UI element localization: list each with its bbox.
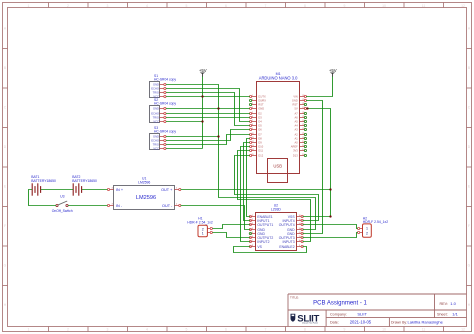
svg-text:7: 7 [265,328,267,332]
ultrasonic sensor S3 HC-SR04 copy [150,126,177,150]
svg-text:SLIIT: SLIIT [357,311,367,316]
svg-text:A6: A6 [295,116,299,120]
wire net ECHO2: S2 ECHO to M1 D2 [166,113,250,115]
svg-text:3: 3 [107,4,109,8]
svg-text:9: 9 [344,4,346,8]
wire net +5V: S2 VCC to 5V bus [166,121,203,123]
svg-text:INPUT2: INPUT2 [257,240,269,244]
wire switch to U1 IN- [68,205,107,207]
svg-text:D1/TX: D1/TX [258,95,266,99]
svg-text:8: 8 [304,4,306,8]
svg-text:A1: A1 [295,137,299,141]
svg-text:5: 5 [186,328,188,332]
svg-text:TRIG: TRIG [153,116,159,120]
svg-text:PCB Assignment - 1: PCB Assignment - 1 [313,300,367,306]
svg-text:BATTERY18650: BATTERY18650 [72,179,97,183]
svg-text:F: F [468,224,470,228]
wire net GND: U1 OUT- to L293D GND (left) [181,206,251,230]
svg-text:D11: D11 [258,149,263,153]
svg-text:HDR-F 2.54_1x2: HDR-F 2.54_1x2 [187,221,213,225]
wire battery BAT2 to U1 IN+ [82,189,108,191]
wire net GND: S1 GND to ground bus down to L293D GND (right) [166,85,316,230]
svg-text:REV:: REV: [440,302,448,306]
wire net +5V: M1 VIN to +5V flag [306,77,333,97]
svg-text:5: 5 [186,4,188,8]
switch U3 OnOff_Switch [52,195,73,213]
wire net TRIG1: S1 TRIG to M1 D5 [166,93,250,126]
svg-text:+5V: +5V [329,68,337,73]
wire net +5V: S3 VCC to 5V bus [166,148,203,150]
svg-text:2: 2 [366,231,368,235]
svg-text:1: 1 [28,328,30,332]
svg-text:D9: D9 [258,141,262,145]
battery BAT1 BATTERY18650 [31,175,56,196]
wire net EN1: M1 D8 to L293D ENABLE1 [247,139,251,217]
junction +5V bus at S1 VCC [201,95,203,97]
svg-text:F: F [4,224,6,228]
svg-text:D2: D2 [258,112,262,116]
svg-text:HC-SR04 copy: HC-SR04 copy [154,102,176,106]
svg-text:6: 6 [225,4,227,8]
svg-text:TITLE:: TITLE: [290,296,299,300]
wire net VS-EN2: L293D VS to ENABLE2 [234,247,307,253]
svg-text:RST: RST [258,103,264,107]
svg-text:ECHO: ECHO [151,139,159,143]
svg-text:D6: D6 [258,128,262,132]
svg-text:Discover Your Future: Discover Your Future [302,322,318,325]
svg-text:OUT +: OUT + [161,188,173,192]
svg-text:D7: D7 [258,133,262,137]
battery BAT2 BATTERY18650 [72,175,97,196]
wire net IN2: M1 D10 to L293D INPUT2 [241,147,251,242]
svg-text:D12: D12 [258,154,263,158]
svg-text:4: 4 [146,4,148,8]
wire net MOTA2: H1 pin1 to OUTPUT2 [213,233,251,238]
svg-text:D10: D10 [258,145,263,149]
ultrasonic sensor S1 HC-SR04 copy [150,74,177,98]
wire net GND: S3 GND to ground bus [166,136,219,138]
junction M1 5V pin [306,107,308,109]
wire net GND: S2 GND to M1 GND [166,108,250,110]
wire net MOTB1: L293D OUTPUT4 to H2 pin1 [303,225,358,229]
svg-text:5V: 5V [295,107,298,111]
svg-text:1: 1 [366,227,368,231]
junction +5V rail at VSS row [329,215,331,217]
svg-text:1.0: 1.0 [450,301,456,306]
svg-text:G: G [4,264,7,268]
wire battery negative rail [29,190,56,206]
svg-text:ECHO: ECHO [151,112,159,116]
svg-text:2021-10-05: 2021-10-05 [350,320,372,325]
usb connector on M1 [268,159,288,183]
svg-text:12: 12 [461,4,465,8]
svg-text:LM2596: LM2596 [136,195,156,201]
svg-text:HC-SR04 copy: HC-SR04 copy [154,78,176,82]
svg-text:D3: D3 [258,116,262,120]
svg-text:ARDUINO NANO 3.0: ARDUINO NANO 3.0 [259,76,298,81]
svg-text:VCC: VCC [153,147,159,151]
svg-text:11: 11 [422,328,426,332]
svg-text:10: 10 [382,328,386,332]
svg-text:BATTERY18650: BATTERY18650 [31,179,56,183]
wire net +5V: S1 VCC to M1 row1 [166,96,250,98]
wire net TRIG3: S3 TRIG to M1 D7 [166,135,250,145]
svg-text:10: 10 [382,4,386,8]
svg-text:GND: GND [292,99,298,103]
wire net MOTA1: H1 pin2 to OUTPUT1 [213,225,251,229]
svg-text:2: 2 [67,328,69,332]
wire net GND: M1 GND to L293D GND (right2) [303,101,323,234]
svg-text:1: 1 [28,4,30,8]
svg-text:D8: D8 [258,137,262,141]
svg-text:1/1: 1/1 [452,311,458,316]
svg-text:AREF: AREF [291,145,298,149]
wire net +5V: sensor 5V bus vertical [202,77,204,149]
svg-text:GND: GND [153,135,159,139]
svg-text:12: 12 [461,328,465,332]
svg-text:7: 7 [265,4,267,8]
svg-text:A3: A3 [295,128,299,132]
svg-text:OnOff_Switch: OnOff_Switch [52,209,73,213]
svg-text:9: 9 [344,328,346,332]
wire net IN4: M1 D12 to L293D INPUT4 [235,156,319,221]
svg-text:2: 2 [67,4,69,8]
mcu module M1 ARDUINO NANO 3.0 [250,72,307,174]
wire net TRIG2: S2 TRIG to M1 D3 [166,117,250,119]
svg-text:D13: D13 [293,154,298,158]
svg-text:4: 4 [146,328,148,332]
junction +5V bus at S2 VCC [201,120,203,122]
svg-text:D5: D5 [258,124,262,128]
svg-text:Drawn By:: Drawn By: [391,321,407,325]
wire net +5V: M1 5V down to VSS [303,109,331,217]
wire net ECHO1: S1 ECHO to M1 D4 [166,89,250,122]
svg-text:+5V: +5V [199,68,207,73]
svg-text:OUTPUT1: OUTPUT1 [257,223,273,227]
wire net IN1: M1 D9 to L293D INPUT1 [244,143,251,221]
svg-text:TRIG: TRIG [153,143,159,147]
regulator module U1 LM2596 [107,177,180,210]
svg-text:1: 1 [202,232,204,236]
svg-text:INPUT3: INPUT3 [283,240,295,244]
svg-text:G: G [468,264,471,268]
svg-text:IN +: IN + [116,188,124,192]
svg-text:RST: RST [293,103,299,107]
svg-text:A4: A4 [295,124,299,128]
svg-text:HDR-F 2.54_1x2: HDR-F 2.54_1x2 [363,220,389,224]
svg-text:D4: D4 [258,120,262,124]
svg-text:Date:: Date: [330,321,339,325]
ultrasonic sensor S2 HC-SR04 copy [150,98,177,123]
power flag +5V (arduino VIN) [330,73,335,75]
header H1 HDR-F 2.54_1x2 [187,217,213,237]
svg-text:6: 6 [225,328,227,332]
svg-text:L293D: L293D [271,207,282,211]
junction GND bus at S2 GND row [217,107,219,109]
svg-text:VS: VS [257,245,262,249]
svg-text:8: 8 [304,328,306,332]
header H2 HDR-F 2.54_1x2 [358,216,389,237]
svg-text:HC-SR04 copy: HC-SR04 copy [154,130,176,134]
svg-text:Lakitha Ranasinghe: Lakitha Ranasinghe [408,320,444,325]
svg-text:3: 3 [107,328,109,332]
svg-text:LM2596: LM2596 [138,180,150,184]
svg-text:GND: GND [258,107,264,111]
wire net +5V: U1 OUT+ rail [181,189,331,191]
power flag +5V (sensor rail) [200,73,205,75]
svg-text:VCC: VCC [153,120,159,124]
wire battery BAT1 to BAT2 [41,189,73,191]
svg-text:A7: A7 [295,112,299,116]
svg-text:U3: U3 [60,195,64,199]
svg-text:A0: A0 [295,141,299,145]
svg-text:OUT -: OUT - [162,204,173,208]
motor driver U2 L293D [249,204,303,251]
svg-text:OUTPUT4: OUTPUT4 [279,223,295,227]
svg-text:A2: A2 [295,133,299,137]
junction +5V rail at OUT+ [329,188,331,190]
svg-text:USB: USB [273,163,282,168]
wire net IN3: M1 D11 to L293D INPUT3 [238,151,311,242]
svg-text:D0/RX: D0/RX [258,99,266,103]
svg-text:Sheet:: Sheet: [437,312,448,316]
wire net ECHO3: S3 ECHO to M1 D6 [166,130,250,141]
svg-text:TRIG: TRIG [153,91,159,95]
svg-text:Company:: Company: [330,312,347,316]
junction GND bus at S3 GND [217,135,219,137]
svg-text:ECHO: ECHO [151,87,159,91]
svg-text:VIN: VIN [293,95,297,99]
svg-text:GND: GND [153,107,159,111]
svg-text:GND: GND [153,83,159,87]
svg-text:11: 11 [422,4,426,8]
wire net MOTB2: L293D OUTPUT3 to H2 pin2 [303,233,358,238]
svg-text:ENABLE2: ENABLE2 [279,245,294,249]
svg-text:3V3: 3V3 [293,149,298,153]
svg-text:IN -: IN - [116,204,123,208]
svg-text:A5: A5 [295,120,299,124]
